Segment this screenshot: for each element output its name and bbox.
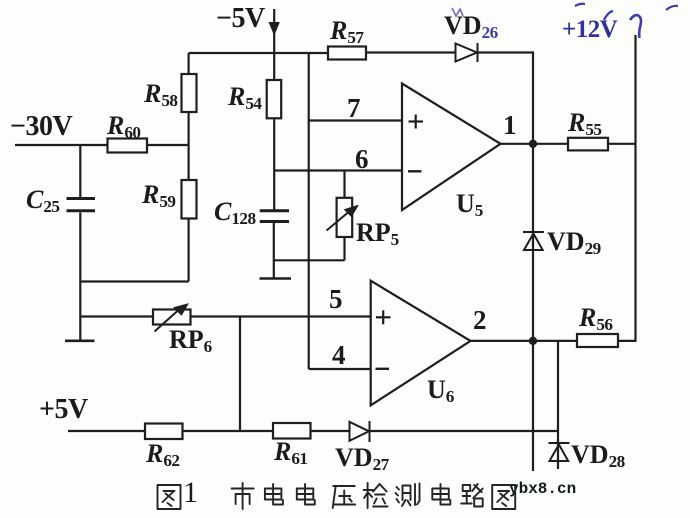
wire ground branch to RP6 left [80,315,153,317]
blue pen dash above +12V [575,4,585,6]
wire RP5 top lead [343,171,345,198]
resistor R56 [577,334,618,347]
label R55 [568,110,602,138]
potentiometer RP5 [327,198,359,237]
diode VD26 [456,43,478,62]
label VD28 [571,442,625,470]
wire R54 top lead [273,53,275,80]
caption figure number 图1 [183,478,198,508]
label U6 [427,377,454,405]
caption hanzi 压 [333,486,356,508]
wire U5 output to R55 [500,143,568,145]
wire VD26 cathode to corner down to node 1 [478,53,534,144]
wire RP5 bottom lead [343,237,345,260]
op-amp U5 minus input sign [408,170,422,172]
wire R57 to VD26 anode [366,51,456,53]
label -30V [10,113,72,141]
label +12V (blue pen) [562,17,617,42]
caption hanzi 测 [396,484,420,507]
wire U5 pin6 [274,169,402,171]
caption hanzi 图 (first) [158,485,181,509]
label RP5 [356,220,399,248]
caption hanzi 电 (1st in title) [265,484,283,505]
wire R55 to +12V rail [608,143,636,145]
wire R54 bottom to C128 [273,118,275,209]
label RP6 [169,327,212,355]
wire R58 to R59 through R60 junction [188,112,190,180]
wire VD28 branch [557,341,559,469]
label U5 [456,191,483,219]
wire R59 bottom lead [188,219,190,282]
resistor R59 [182,180,197,219]
wire C128 bottom to ground [273,223,275,278]
wire RP6 right to U6 pin5 [191,315,371,317]
caption hanzi 路 [461,484,483,507]
ground (below C128) [260,277,292,280]
capacitor C25 [67,199,96,211]
label R62 [146,441,180,469]
diode VD27 [350,421,370,442]
wire node1 down through VD29 to node2 [532,144,534,471]
diode VD29 [523,232,544,250]
resistor R55 [568,138,608,151]
wire R60 right to R58/R59 junction [147,144,189,146]
caption hanzi 检 [364,483,388,508]
label R59 [142,182,176,210]
junction node 1 dot [529,140,537,148]
resistor R58 [182,74,197,112]
wire long vertical x309 [308,53,310,369]
caption hanzi 图 (last) [492,485,515,509]
label VD26 [444,13,498,41]
pin 5 [329,286,343,313]
caption hanzi 电 (3rd in title) [432,484,450,505]
label +5V [39,396,88,424]
op-amp U6 plus input sign [376,310,391,324]
blue pen tick over 2V [604,11,613,20]
wire top rail (-5V node) [189,52,328,54]
label R54 [228,84,262,112]
label C25 [26,187,60,215]
resistor R61 [273,423,311,439]
op-amp U6 [371,281,471,406]
label R57 [330,18,364,46]
op-amp U6 minus input sign [376,368,390,370]
power -5V arrow [269,9,279,53]
wire C25 bottom lead [79,213,81,282]
wire U5 pin7 [309,119,402,121]
wire left branch to ground [79,282,81,341]
caption hanzi 电 (2nd in title) [297,484,315,505]
wire C128 to RP5 bottom [274,259,345,261]
wire U6 output to R56 [470,340,577,342]
wire R56 to +12V rail [618,340,636,342]
diode VD28 [549,443,570,461]
wire bottom-left horizontal [80,280,188,282]
junction node 2 dot [529,337,537,345]
wire +5V input [68,430,145,432]
pin 2 [473,307,487,334]
resistor R54 [267,80,282,118]
wire U6 pin5 stub [309,368,371,370]
resistor R57 [328,47,366,60]
pin 1 [503,112,517,139]
ground (left, below RP6 tap) [65,339,95,342]
wire -30V input [15,144,108,146]
wire mid branch down to +5V rail [239,317,241,432]
op-amp U5 plus input sign [409,115,424,129]
op-amp U5 [402,84,501,211]
blue pen tick top right [666,6,678,10]
label VD27 [335,445,389,473]
label R56 [579,305,613,333]
wire R61 to VD27 [311,430,350,432]
wire +12V rail [634,35,636,342]
label C128 [214,199,256,227]
label -5V [216,5,265,33]
label R58 [144,81,178,109]
pin 7 [347,95,361,122]
wire R58 top lead [188,53,190,74]
resistor R62 [145,424,183,440]
wire C25 top lead [79,145,81,197]
label VD29 [547,229,601,257]
blue pen mark eta after +12V [630,15,641,38]
caption hanzi 市 [232,483,254,509]
resistor R60 [108,139,148,153]
potentiometer RP6 [153,304,191,332]
capacitor C128 [260,211,289,222]
blue pen scribble over VD26 subscript [452,8,463,16]
pin 6 [355,146,369,173]
label R60 [107,113,141,141]
pin 4 [332,342,346,369]
wire R62 to R61 [183,430,274,432]
watermark ybx8.cn [509,481,576,497]
wire VD27 cathode to VD28 branch [370,430,559,432]
label R61 [274,439,308,467]
